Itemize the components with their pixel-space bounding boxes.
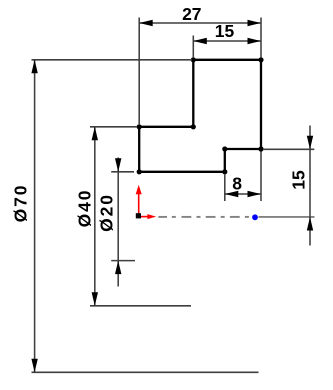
svg-text:8: 8 [232,174,242,194]
svg-text:15: 15 [215,21,235,41]
sketch origin (red axes with black square) [136,185,157,219]
sketch vertex points [137,57,264,174]
dimension diameter 70 [10,60,258,373]
dimension 15 (right height to axis) [263,126,314,246]
dimension 15 (top step width) [193,21,261,58]
svg-text:Ø40: Ø40 [74,189,94,228]
svg-text:15: 15 [288,170,308,190]
centerline (construction axis, dash-dot) [158,216,314,218]
svg-text:27: 27 [182,4,201,24]
sketch profile outline (stepped revolve section) [139,60,261,172]
dimension 27 (top width) [139,4,261,125]
dimension diameter 40 [74,127,191,306]
svg-text:Ø20: Ø20 [96,193,116,232]
centerline endpoint (blue) [252,214,258,220]
dimension 8 (lower step width) [225,152,261,202]
dimension diameter 20 [96,158,135,287]
svg-text:Ø70: Ø70 [10,184,30,223]
